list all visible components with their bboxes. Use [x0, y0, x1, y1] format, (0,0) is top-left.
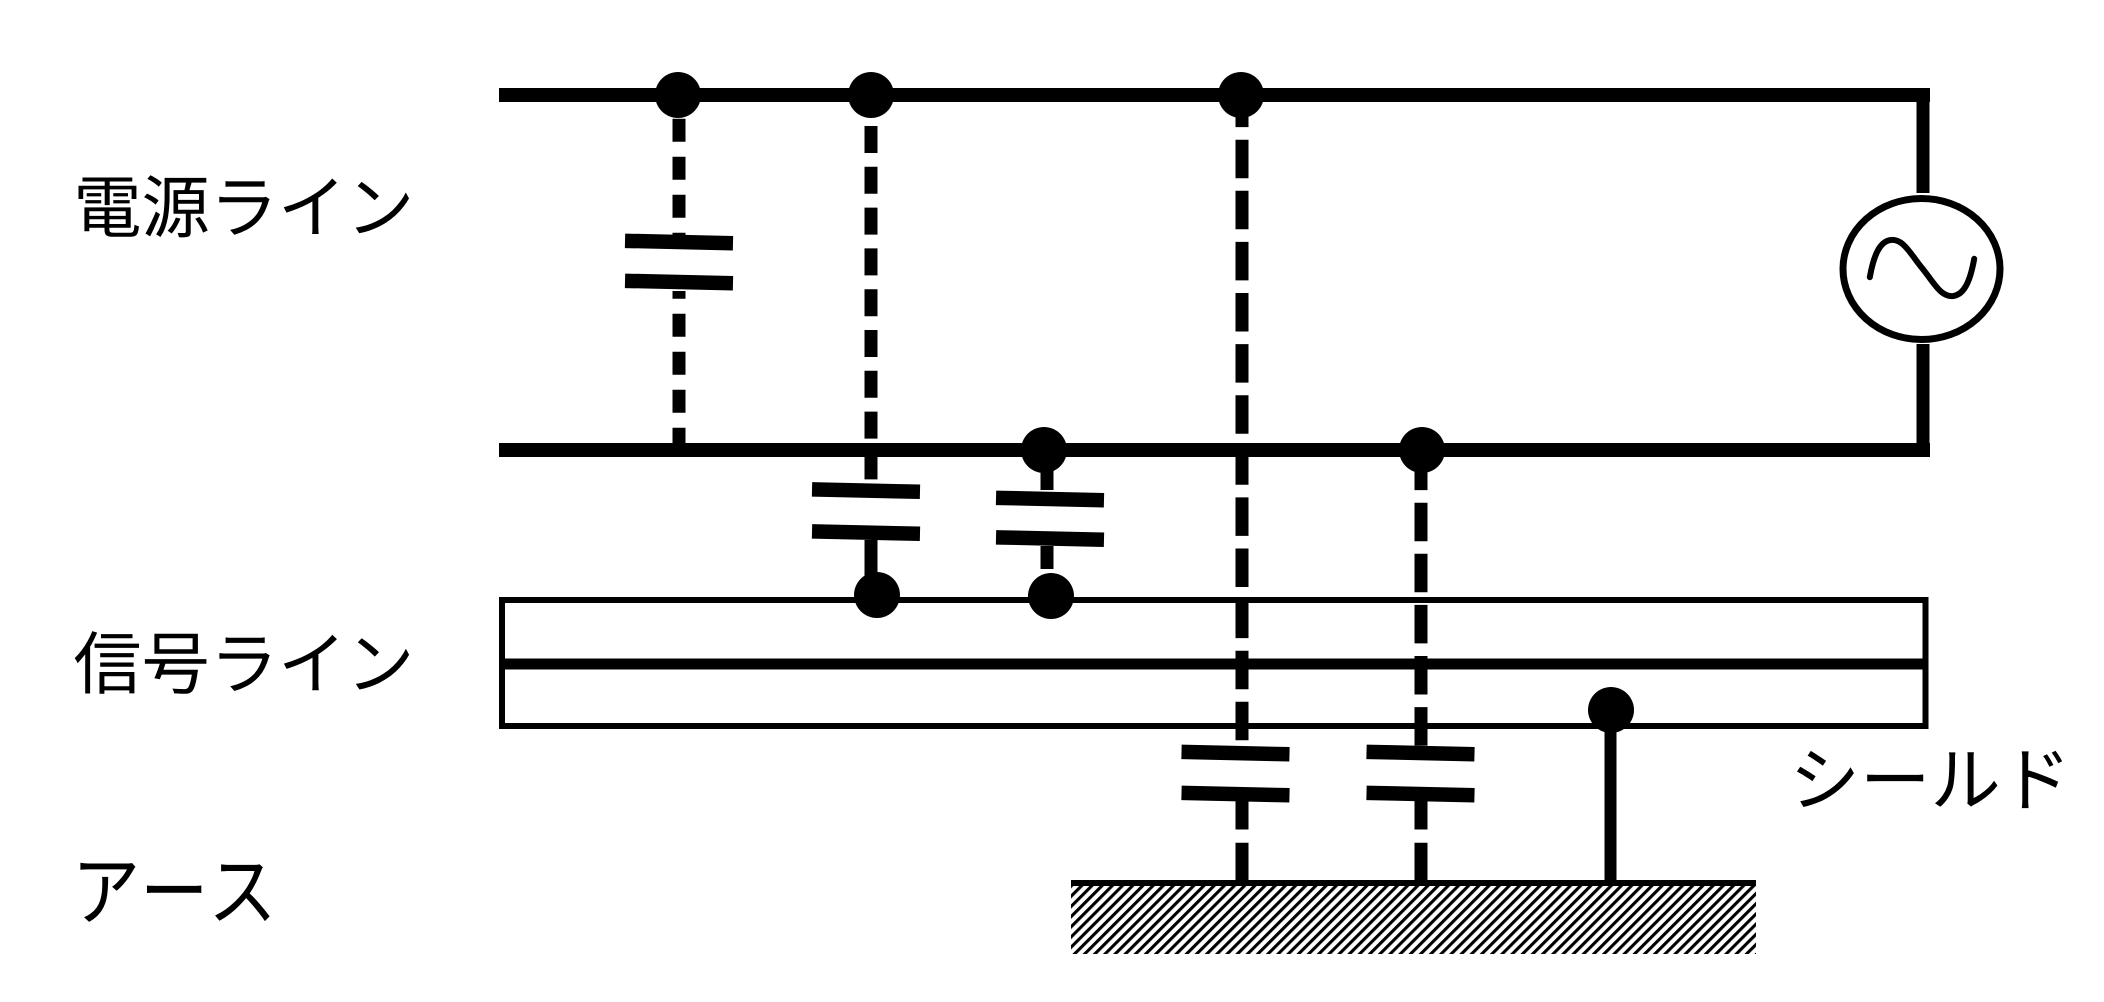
junction dot: top power line / C1 tap: [655, 72, 701, 118]
capacitor C2 (power-to-signal stray) (stray capacitance, top plate): [812, 482, 920, 499]
capacitor C3 (power-to-signal stray) (stray capacitance, bottom plate): [996, 530, 1104, 547]
wire: signal conductor inside cable: [502, 659, 1926, 670]
wire (dashed): bottom power line to C3: [1041, 450, 1054, 490]
node label: 電源ライン (power line): [79, 175, 410, 237]
wire: bottom power-line conductor (N): [499, 443, 1930, 457]
wire (dashed): C4 to earth: [1236, 801, 1249, 886]
junction dot: signal line / C2 tap: [854, 572, 900, 618]
signal line cable body (node: signal line): [502, 600, 1926, 726]
ground: earth surface line: [1071, 880, 1756, 886]
wire (dashed): stray coupling from top power line to C1: [673, 95, 686, 235]
wire (dashed): bottom power line to C5: [1415, 450, 1428, 746]
wire (dashed): C2 to signal line: [865, 540, 878, 594]
junction dot: bottom power line / C3 tap: [1021, 427, 1067, 473]
wire (dashed): C5 to earth: [1415, 801, 1428, 886]
node label: シールド (shield): [1797, 751, 2062, 808]
capacitor C2 (power-to-signal stray) (stray capacitance, bottom plate): [812, 524, 920, 541]
AC source V1 (noise source): [1843, 199, 2000, 340]
capacitor C3 (power-to-signal stray) (stray capacitance, top plate): [996, 491, 1104, 508]
capacitor C4 (power-to-earth stray) (stray capacitance, top plate): [1181, 745, 1289, 762]
node label: 信号ライン (signal line): [75, 631, 409, 694]
capacitor C1 (line-to-line stray) (stray capacitance, top plate): [625, 234, 733, 251]
wire (dashed): C3 to signal line: [1041, 546, 1054, 596]
capacitor C5 (power-to-earth stray) (stray capacitance, bottom plate): [1366, 786, 1474, 803]
wire: AC source top lead: [1917, 88, 1930, 193]
junction dot: bottom power line / C5 tap: [1399, 427, 1445, 473]
junction dot: top power line / C4 tap: [1218, 72, 1264, 118]
wire: top power-line conductor (L): [499, 88, 1930, 102]
junction dot: shield tap: [1588, 687, 1634, 733]
capacitor C4 (power-to-earth stray) (stray capacitance, bottom plate): [1181, 786, 1289, 803]
junction dot: signal line / C3 tap: [1028, 573, 1074, 619]
capacitor C5 (power-to-earth stray) (stray capacitance, top plate): [1366, 745, 1474, 762]
wire: shield-to-earth conductor: [1605, 710, 1617, 883]
wire (dashed): top power line to C4: [1236, 95, 1249, 746]
junction dot: top power line / C2 tap: [848, 72, 894, 118]
wire (dashed): C1 to bottom power line: [673, 291, 686, 450]
wire: AC source bottom lead: [1917, 344, 1930, 457]
node label: アース (earth): [80, 863, 269, 922]
wire (dashed): top power line to C2: [865, 95, 878, 483]
capacitor C1 (line-to-line stray) (stray capacitance, bottom plate): [625, 274, 733, 291]
ground: earth hatching: [1071, 886, 1756, 954]
